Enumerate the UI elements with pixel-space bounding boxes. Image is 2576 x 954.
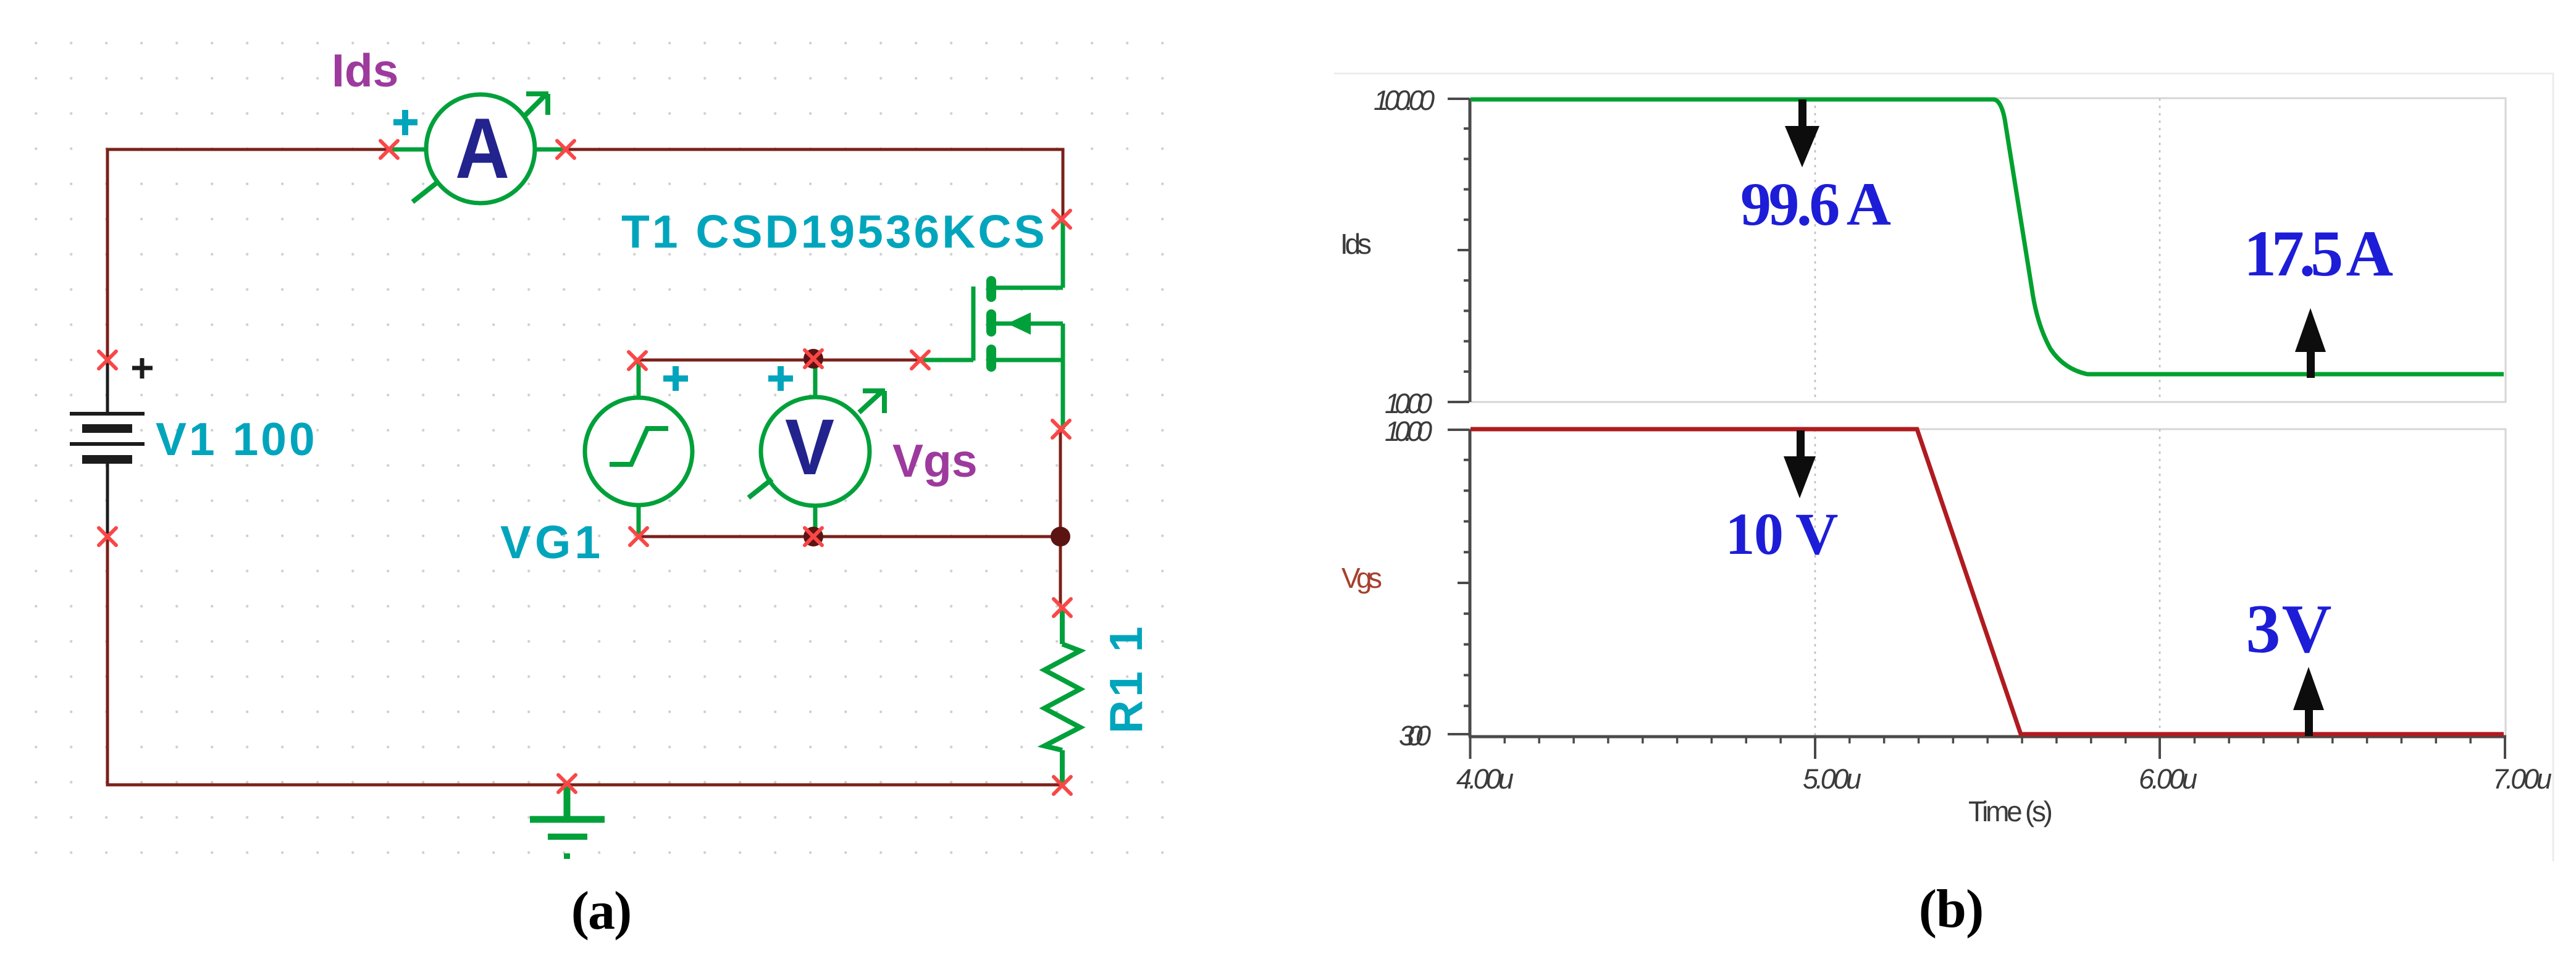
- svg-text:VG1: VG1: [500, 516, 604, 568]
- svg-text:T1 CSD19536KCS: T1 CSD19536KCS: [621, 206, 1047, 257]
- svg-text:3 V: 3 V: [2246, 591, 2332, 667]
- svg-text:A: A: [455, 101, 510, 196]
- svg-text:5.00u: 5.00u: [1803, 763, 1861, 795]
- svg-text:Vgs: Vgs: [1341, 562, 1382, 594]
- svg-text:17.5 A: 17.5 A: [2244, 217, 2393, 290]
- svg-text:(a): (a): [571, 881, 631, 941]
- svg-text:(b): (b): [1919, 879, 1984, 939]
- svg-text:6.00u: 6.00u: [2139, 763, 2197, 795]
- svg-text:10.00: 10.00: [1385, 388, 1432, 419]
- svg-text:99.6 A: 99.6 A: [1740, 170, 1891, 238]
- svg-text:Vgs: Vgs: [892, 435, 978, 487]
- svg-text:Time (s): Time (s): [1968, 795, 2053, 827]
- svg-text:3.00: 3.00: [1399, 720, 1431, 751]
- svg-text:Ids: Ids: [332, 44, 398, 96]
- svg-text:7.00u: 7.00u: [2493, 763, 2552, 795]
- svg-text:V: V: [785, 403, 834, 492]
- svg-text:Ids: Ids: [1340, 228, 1372, 260]
- svg-text:R1 1: R1 1: [1100, 624, 1152, 734]
- svg-text:100.00: 100.00: [1374, 85, 1435, 116]
- svg-text:4.00u: 4.00u: [1456, 763, 1514, 795]
- svg-text:10 V: 10 V: [1726, 501, 1839, 567]
- svg-text:10.00: 10.00: [1385, 416, 1432, 447]
- svg-text:V1 100: V1 100: [156, 413, 317, 465]
